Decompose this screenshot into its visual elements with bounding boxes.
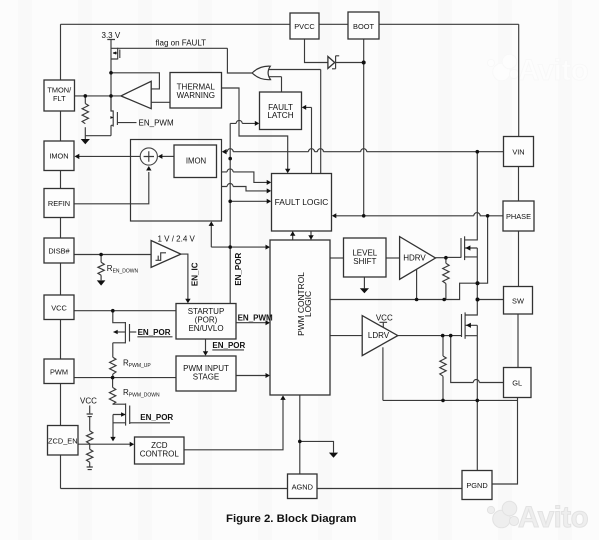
svg-text:EN_PWM: EN_PWM	[238, 314, 273, 323]
svg-text:VCC: VCC	[51, 303, 67, 312]
svg-text:Figure 2. Block Diagram: Figure 2. Block Diagram	[226, 513, 356, 525]
svg-text:LOGIC: LOGIC	[303, 291, 313, 317]
svg-text:LDRV: LDRV	[368, 331, 390, 340]
svg-text:EN_PWM: EN_PWM	[139, 119, 174, 128]
svg-text:BOOT: BOOT	[353, 22, 374, 31]
svg-text:flag on FAULT: flag on FAULT	[156, 38, 207, 47]
svg-text:WARNING: WARNING	[177, 91, 215, 100]
svg-text:VCC: VCC	[376, 313, 393, 322]
svg-text:1 V / 2.4 V: 1 V / 2.4 V	[158, 235, 196, 244]
svg-text:PGND: PGND	[466, 481, 487, 490]
svg-text:EN_POR: EN_POR	[138, 328, 171, 337]
svg-text:HDRV: HDRV	[403, 254, 426, 263]
svg-text:FAULT LOGIC: FAULT LOGIC	[275, 197, 329, 207]
svg-text:PWM: PWM	[50, 367, 68, 376]
svg-text:CONTROL: CONTROL	[140, 450, 180, 459]
svg-text:SW: SW	[512, 296, 524, 305]
svg-text:IMON: IMON	[49, 152, 68, 161]
svg-text:Avito: Avito	[518, 54, 588, 87]
svg-text:VIN: VIN	[512, 147, 524, 156]
svg-text:EN/UVLO: EN/UVLO	[188, 324, 223, 333]
svg-text:FLT: FLT	[53, 94, 66, 103]
svg-text:GL: GL	[512, 378, 522, 387]
svg-text:AGND: AGND	[292, 482, 313, 491]
svg-text:PVCC: PVCC	[294, 22, 315, 31]
svg-text:EN_IC: EN_IC	[191, 262, 200, 286]
svg-text:Avito: Avito	[518, 501, 588, 534]
svg-text:PHASE: PHASE	[506, 212, 531, 221]
svg-text:EN_POR: EN_POR	[140, 413, 173, 422]
svg-text:DISB#: DISB#	[48, 247, 70, 256]
svg-text:STAGE: STAGE	[193, 373, 220, 382]
svg-text:ZCD_EN: ZCD_EN	[48, 436, 78, 445]
svg-text:EN_POR: EN_POR	[234, 253, 243, 286]
svg-text:IMON: IMON	[186, 157, 206, 166]
svg-text:VCC: VCC	[80, 397, 97, 406]
svg-text:3.3 V: 3.3 V	[102, 31, 121, 40]
svg-text:SHIFT: SHIFT	[353, 257, 376, 266]
svg-text:EN_POR: EN_POR	[212, 341, 245, 350]
svg-text:REFIN: REFIN	[48, 199, 70, 208]
svg-text:LATCH: LATCH	[267, 111, 293, 120]
